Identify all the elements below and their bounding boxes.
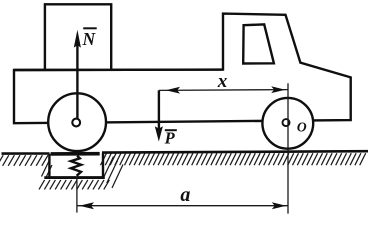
left wheel [48,93,106,151]
right wheel hub [283,119,290,126]
force P arrow shaft [158,90,160,128]
dimension line a [77,205,288,207]
svg-text:x: x [217,71,228,92]
dimension a left arrowhead [79,202,94,209]
dimension line x [159,89,288,92]
truck bed top edge [14,68,223,71]
scale pit walls [49,153,103,178]
hatch below pit [39,157,123,190]
right wheel [262,98,313,149]
svg-text:P: P [164,128,176,147]
svg-text:N: N [82,29,97,49]
scale platform under wheel [51,152,100,156]
label N overline [83,27,97,29]
force N arrow shaft [76,43,78,119]
dimension x right arrowhead [271,86,285,93]
extension line from spring center [76,177,78,213]
label P overline [165,129,177,131]
dimension x left arrowhead [166,87,180,94]
svg-text:a: a [180,184,190,206]
extension line through wheel center O [287,83,289,213]
ground line left of pit [2,152,50,155]
pit bottom slab [44,176,105,179]
force P arrowhead [155,126,163,141]
crate on truck bed [45,4,111,70]
dimension a right arrowhead [272,202,286,209]
left wheel hub [72,119,80,127]
truck body outline [14,14,351,124]
force N arrowhead [74,30,81,48]
spring [71,156,81,176]
ground line right of pit [102,151,368,152]
svg-text:O: O [297,119,307,134]
hatch left ground [0,155,48,166]
hatch right ground [101,153,366,165]
cab window [243,24,274,63]
